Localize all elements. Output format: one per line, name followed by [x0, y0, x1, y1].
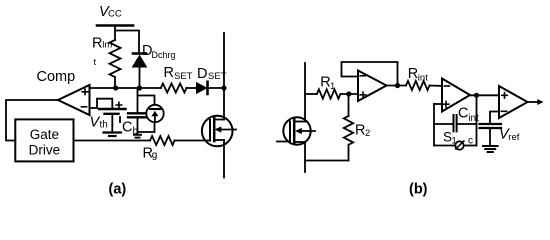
wire DSET to drain line	[209, 87, 224, 89]
capacitor Vref bottom plate	[480, 127, 502, 129]
wire comparator noninverting input rail (y=88)	[90, 87, 161, 89]
MOSFET body arrow	[220, 129, 236, 131]
tick mark	[119, 117, 121, 122]
wire drain to R1	[305, 93, 317, 95]
U3 minus sign	[501, 110, 506, 112]
wire branch from VCC stem to DDchrg	[115, 31, 139, 54]
svg-text:R: R	[355, 123, 365, 139]
MOSFET b source connector	[294, 141, 305, 143]
node junction dot DSET/drain	[221, 85, 226, 90]
capacitor Cb top plate	[128, 112, 146, 114]
MOSFET body circle	[202, 116, 233, 147]
svg-text:R: R	[92, 36, 102, 52]
label Rlmt	[92, 36, 112, 69]
svg-text:R: R	[408, 66, 418, 82]
svg-text:1: 1	[452, 136, 457, 147]
svg-text:int: int	[468, 113, 479, 124]
label RSET	[164, 65, 193, 82]
capacitor Cint right plate	[456, 115, 458, 131]
op-amp U2 (integrator)	[442, 79, 470, 112]
MOSFET b gate stub wire	[277, 141, 290, 143]
wire feedback right leg	[476, 95, 478, 145]
diode DDchrg (triangle)	[133, 56, 147, 68]
wire U2 output to U3	[470, 94, 499, 96]
label R2	[355, 123, 370, 140]
comparator minus sign	[81, 106, 86, 108]
resistor Rg	[150, 136, 175, 145]
resistor R1	[317, 89, 341, 98]
wire R1 to node	[340, 93, 358, 95]
MOSFET b drain connector	[294, 121, 305, 123]
wire Rint to U2	[430, 85, 443, 87]
current source arrow	[154, 114, 156, 122]
MOSFET b channel dashes	[293, 119, 296, 126]
wire Cint branch left	[434, 123, 453, 125]
wire U3 inverting input to Vref	[490, 112, 499, 124]
svg-text:c: c	[468, 136, 473, 147]
op-amp U3 (output comparator)	[499, 86, 528, 118]
wire Rg to MOSFET gate	[175, 140, 210, 142]
svg-text:D: D	[197, 66, 207, 82]
node junction dot R1/R2/opamp	[346, 91, 351, 96]
label S1	[443, 130, 457, 147]
wire Cb top stem	[137, 96, 139, 114]
MOSFET source connector	[214, 139, 224, 141]
wire R2 to bottom return	[348, 145, 350, 161]
wire DDchrg bottom to node	[139, 67, 141, 88]
capacitor Cb bottom plate	[128, 116, 146, 118]
svg-text:t: t	[94, 57, 97, 68]
wire node to Cb / current source branch	[138, 88, 155, 105]
U1 minus sign	[360, 75, 365, 77]
capacitor Vref top plate	[480, 123, 502, 125]
wire Cint branch right	[457, 123, 477, 125]
label Rg	[143, 146, 158, 162]
U2 minus sign	[444, 85, 449, 87]
wire Gate Drive output to Rg	[74, 140, 151, 142]
label c	[468, 136, 473, 147]
resistor R2	[344, 116, 353, 145]
current source circle	[146, 105, 163, 122]
svg-text:(b): (b)	[409, 182, 428, 198]
label DDchrg	[142, 43, 176, 60]
wire S1 branch right	[464, 145, 477, 147]
MOSFET channel dashes	[213, 117, 216, 124]
wire feedback riser (left leg)	[433, 104, 435, 146]
wire drain line (vertical)	[223, 33, 225, 120]
resistor Rint	[406, 81, 430, 90]
svg-text:int: int	[418, 72, 428, 83]
wire U1 feedback loop	[342, 62, 398, 86]
wire U1 output	[387, 85, 407, 87]
wire Cb ground stem	[137, 132, 139, 134]
label Vth	[90, 115, 108, 131]
label (b)	[409, 182, 428, 198]
label Vref	[499, 127, 520, 143]
box Gate Drive	[15, 119, 73, 161]
transistor M1 (power MOSFET, circuit a)	[202, 116, 236, 147]
MOSFET b body arrow	[300, 130, 315, 132]
current source bar	[150, 108, 160, 110]
diode DSET (cathode bar)	[206, 82, 209, 94]
svg-text:lm: lm	[102, 40, 112, 51]
wire Rlmt bottom to node	[114, 77, 116, 88]
svg-text:th: th	[100, 120, 108, 131]
ground under Cb	[134, 134, 141, 136]
label Cint	[458, 106, 479, 124]
switch S1 circle	[455, 141, 463, 149]
wire source line (vertical)	[223, 140, 225, 178]
wire RSET to DSET	[187, 87, 197, 89]
svg-text:C: C	[458, 106, 468, 122]
op-amp comparator (left-pointing triangle)	[58, 85, 90, 115]
MOSFET b gate electrode	[289, 122, 291, 142]
diode DSET (triangle)	[197, 83, 207, 94]
resistor Rlmt	[110, 40, 121, 77]
svg-text:1: 1	[330, 81, 335, 92]
svg-text:ref: ref	[508, 132, 519, 143]
battery Vth short plate	[105, 113, 119, 115]
node junction dot U1 output	[395, 83, 400, 88]
MOSFET drain connector	[214, 119, 224, 121]
wire MOSFET b source stub	[304, 142, 306, 172]
label DSET	[197, 66, 227, 82]
svg-text:SET: SET	[174, 71, 193, 82]
resistor RSET	[161, 84, 187, 93]
wire Vth to ground	[111, 114, 113, 132]
MOSFET b body circle	[283, 117, 310, 144]
svg-text:Dchrg: Dchrg	[152, 50, 176, 60]
comparator plus sign	[82, 89, 88, 95]
U3 plus sign	[502, 93, 508, 99]
svg-text:(a): (a)	[109, 182, 127, 198]
wire node down to R2	[348, 94, 350, 116]
ground under Vth	[104, 131, 122, 133]
wire Vref to ground	[489, 128, 491, 146]
label Comp	[37, 69, 76, 85]
switch S1 lever	[456, 141, 464, 149]
svg-text:Drive: Drive	[29, 142, 61, 157]
node junction dot U2 output	[474, 93, 479, 98]
wire S1 branch left	[434, 145, 455, 147]
wire MOSFET b drain stub	[304, 63, 306, 122]
capacitor Cint left plate	[453, 115, 455, 131]
diode DDchrg (cathode bar)	[133, 52, 146, 55]
wire comparator output feedback to Gate Drive	[6, 100, 58, 141]
wire U3 output with arrow	[528, 101, 540, 103]
battery Vth long plate	[99, 108, 126, 110]
battery Vth plus sign	[116, 102, 121, 107]
label R1	[320, 75, 335, 93]
label Cb	[122, 120, 139, 137]
U1 plus sign	[360, 92, 366, 98]
svg-text:R: R	[164, 65, 174, 81]
wire R2 bottom return	[305, 160, 349, 162]
ground under Vref	[483, 145, 498, 147]
op-amp U1 (buffer)	[358, 71, 387, 102]
wire comparator inverting input step to Vth	[90, 99, 113, 109]
VCC power rail bar	[97, 24, 133, 27]
transistor M2 (MOSFET, circuit b)	[277, 117, 315, 144]
wire U2 plus input from feedback riser	[434, 103, 442, 105]
U2 plus sign	[443, 101, 449, 107]
label Rint	[408, 66, 428, 84]
MOSFET gate electrode	[209, 120, 211, 141]
svg-text:CC: CC	[108, 9, 122, 20]
node junction dot at DDchrg bottom	[137, 85, 142, 90]
wire Cb bottom to ground / current source bottom	[138, 117, 155, 132]
svg-text:Comp: Comp	[37, 69, 76, 85]
svg-text:Gate: Gate	[30, 127, 59, 142]
label (a)	[109, 182, 127, 198]
node junction dot at Rlmt bottom	[113, 85, 118, 90]
node VCC label	[99, 4, 122, 20]
wire VCC stem down to Rlmt	[114, 26, 116, 41]
svg-text:g: g	[152, 150, 158, 161]
svg-text:2: 2	[365, 128, 370, 139]
svg-text:C: C	[122, 120, 132, 136]
